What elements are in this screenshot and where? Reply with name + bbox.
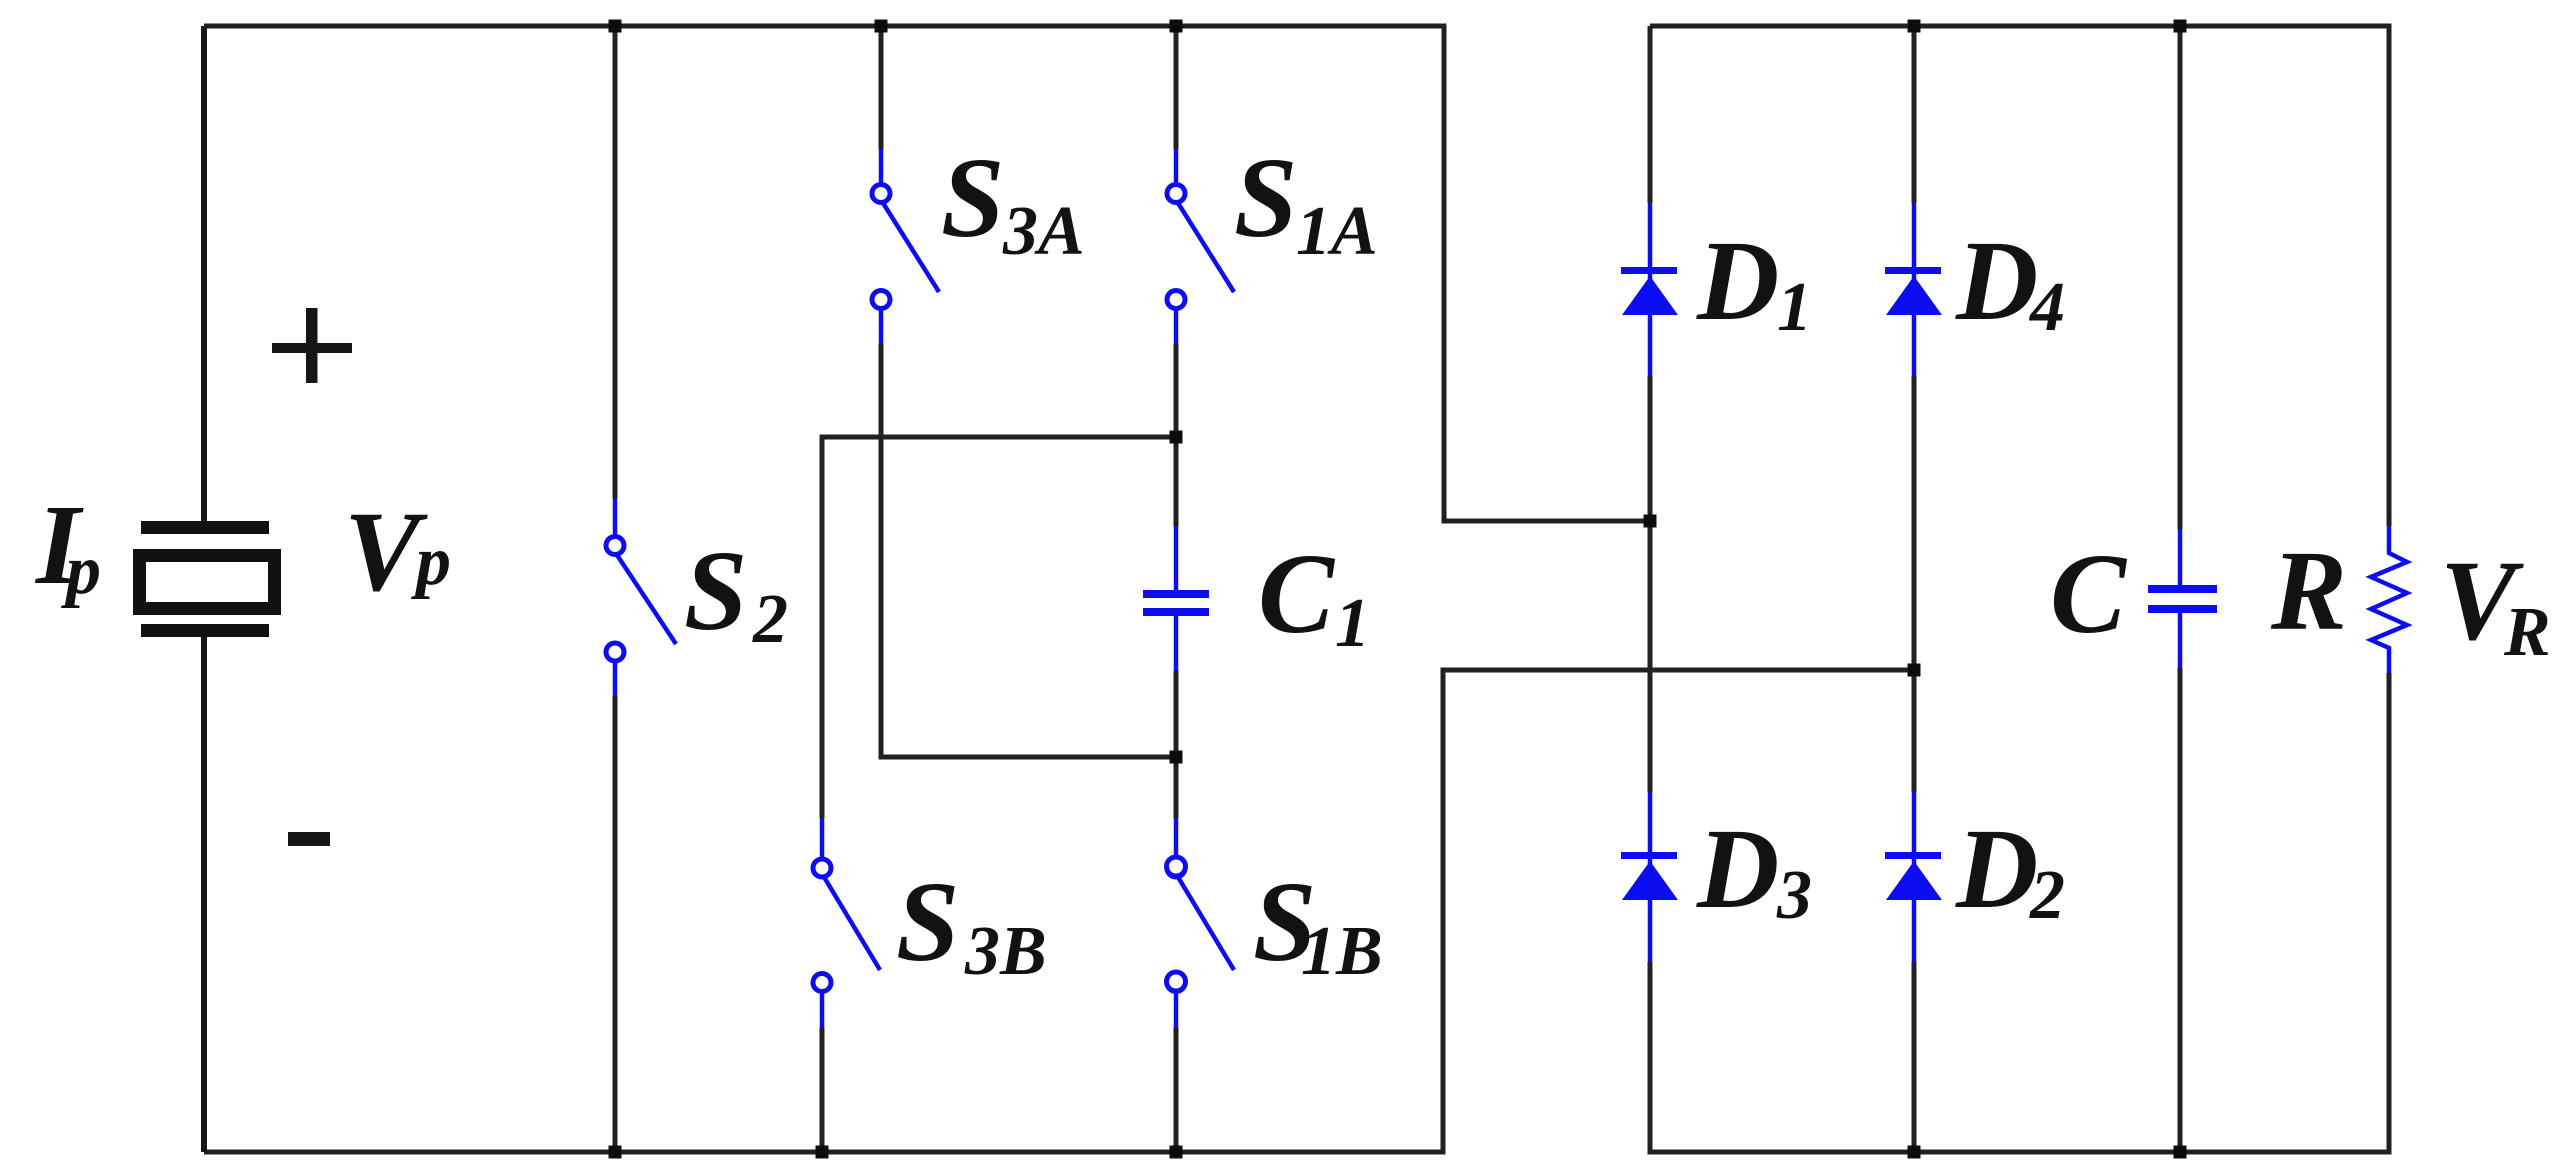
svg-text:D: D	[1696, 217, 1779, 344]
svg-text:3A: 3A	[1002, 193, 1085, 270]
svg-text:S: S	[684, 527, 747, 654]
svg-text:D: D	[1696, 805, 1779, 932]
svg-text:C: C	[2050, 530, 2128, 657]
svg-text:1: 1	[1777, 269, 1812, 346]
svg-text:1: 1	[1335, 585, 1370, 662]
svg-text:C: C	[1258, 530, 1336, 657]
svg-text:S: S	[1234, 134, 1297, 261]
svg-text:D: D	[1955, 805, 2038, 932]
svg-text:S: S	[896, 858, 959, 985]
svg-text:3B: 3B	[964, 913, 1047, 990]
svg-text:1B: 1B	[1301, 913, 1383, 990]
svg-text:S: S	[941, 134, 1004, 261]
svg-text:1A: 1A	[1296, 193, 1378, 270]
svg-text:2: 2	[752, 581, 788, 658]
svg-text:p: p	[61, 532, 101, 609]
svg-text:D: D	[1955, 217, 2038, 344]
svg-text:p: p	[411, 523, 451, 600]
svg-text:2: 2	[2029, 857, 2065, 934]
svg-text:3: 3	[1776, 857, 1812, 934]
svg-text:R: R	[2270, 527, 2347, 654]
svg-text:4: 4	[2028, 269, 2065, 346]
svg-text:R: R	[2503, 594, 2551, 671]
